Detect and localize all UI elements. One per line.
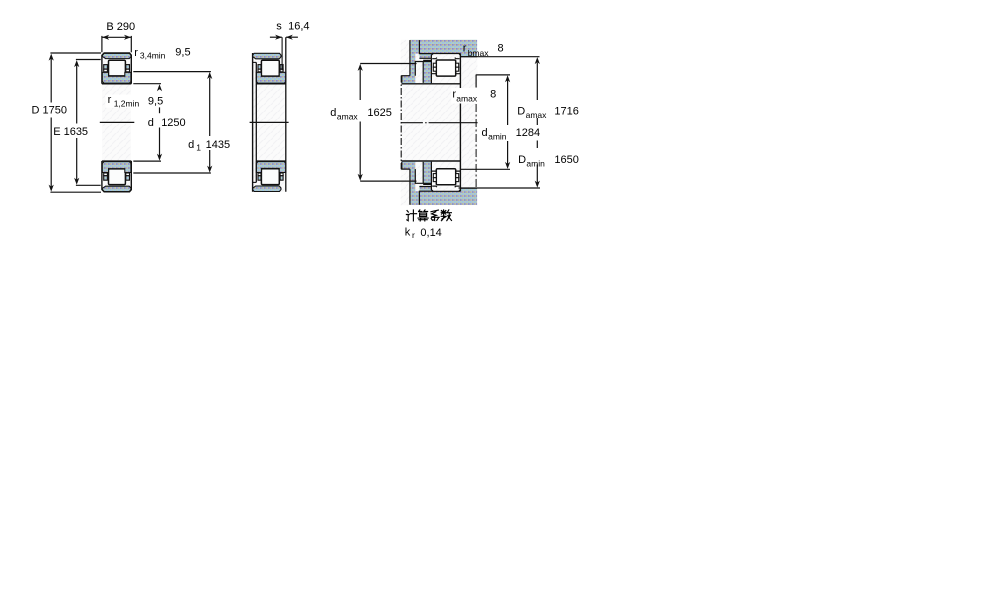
svg-text:3,4min: 3,4min — [140, 51, 166, 61]
cage boxes left (bottom) — [433, 178, 436, 182]
E dimension line lower — [76, 138, 78, 183]
d extension line top — [133, 83, 161, 85]
flange OD edge top — [253, 61, 257, 63]
outer ring outline (top) — [431, 54, 460, 59]
roller (top) — [436, 60, 455, 76]
da min extension bottom — [461, 168, 510, 170]
svg-text:9,5: 9,5 — [175, 47, 190, 59]
cage pocket left (left bottom) — [104, 173, 108, 176]
left view centerline — [100, 121, 135, 123]
housing block (bottom) — [419, 191, 477, 205]
right bearing bottom section (mirror) — [402, 161, 461, 191]
svg-text:amax: amax — [526, 110, 548, 120]
svg-text:9,5: 9,5 — [148, 96, 163, 108]
D arrow bottom — [49, 185, 54, 192]
svg-text:8: 8 — [490, 89, 496, 101]
Da arrow bottom — [535, 181, 540, 188]
roller (mid top) — [261, 60, 279, 76]
svg-text:r: r — [412, 230, 415, 240]
D dimension line upper — [50, 56, 52, 103]
svg-text:E 1635: E 1635 — [53, 126, 88, 138]
shaft shoulder outline (top) — [402, 60, 432, 83]
svg-text:amin: amin — [488, 132, 507, 142]
flange OD edge bottom — [253, 181, 257, 183]
da max dim line upper — [359, 67, 361, 101]
cage pocket right (left bottom) — [126, 173, 130, 176]
s dimension line right — [286, 36, 298, 38]
D arrow top — [49, 54, 54, 61]
svg-text:D 1750: D 1750 — [32, 105, 67, 117]
left view: bearing cross-section — [32, 21, 231, 192]
roller (left top) — [109, 60, 126, 76]
svg-text:d: d — [148, 117, 154, 129]
shaft shoulder (bottom) — [402, 162, 416, 170]
label ra max backing — [451, 88, 483, 104]
B arrow left — [102, 35, 109, 40]
d1 arrow bottom — [207, 166, 212, 173]
da min arrow bottom — [505, 162, 510, 169]
svg-text:1284: 1284 — [516, 127, 540, 139]
inner ring with flanges (left top) — [102, 72, 131, 83]
roller (mid bottom) — [261, 169, 279, 185]
outer ring right face extension — [281, 37, 283, 70]
middle view bottom section (mirror) — [253, 161, 286, 191]
da max arrow bottom — [358, 174, 363, 181]
cage bar right (mid bottom) — [280, 176, 283, 181]
svg-text:d: d — [330, 107, 336, 119]
outer ring section (mid top) — [253, 53, 282, 59]
E extension line top — [76, 59, 101, 61]
svg-text:1: 1 — [196, 143, 201, 153]
bearing right face line — [459, 54, 461, 192]
d arrow top — [157, 84, 162, 91]
inner ring with flanges (left bottom) — [102, 162, 131, 173]
cage pocket right (left top) — [126, 69, 130, 72]
d1 extension line top — [133, 71, 211, 73]
s dimension line left — [270, 36, 282, 38]
spacer column (top) — [423, 60, 431, 83]
d1 dimension line lower — [209, 150, 211, 168]
Da dim line seg2 — [536, 118, 538, 125]
d extension line bottom — [133, 160, 161, 162]
shaft/housing texture band — [401, 40, 478, 206]
svg-text:amax: amax — [456, 93, 478, 103]
clamp ring upper (top) — [410, 40, 420, 54]
cage pocket left (left top) — [104, 69, 108, 72]
D extension line top — [50, 52, 101, 54]
svg-text:D: D — [518, 154, 526, 166]
ring face outlines (left top) — [102, 53, 131, 84]
svg-text:16,4: 16,4 — [288, 21, 309, 33]
inner ring flange lines (top) — [431, 58, 460, 83]
inner ring with flanges (mid top) — [256, 72, 286, 83]
inner ring bore line (mid bottom) — [256, 160, 286, 162]
svg-text:k: k — [405, 226, 411, 238]
inner ring left face line — [255, 62, 257, 182]
B arrow right — [124, 35, 131, 40]
housing block (top) — [419, 40, 477, 54]
da max extension top — [360, 63, 416, 65]
housing shoulder step (top) — [460, 53, 477, 56]
inner ring bore line (left top) — [102, 83, 131, 85]
D dimension line lower — [50, 118, 52, 190]
da min dim line upper — [507, 80, 509, 126]
bore interior texture — [102, 54, 131, 192]
Da max extension top — [460, 56, 539, 58]
svg-text:d: d — [482, 127, 488, 139]
inner ring with flanges (mid bottom) — [256, 162, 286, 173]
E extension line bottom — [76, 184, 101, 186]
outer ring section (left bottom) — [102, 186, 130, 191]
bottom grey (mirror) — [402, 162, 477, 205]
da max extension bottom — [360, 180, 416, 182]
shaft shoulder (top) — [402, 76, 416, 84]
outer ring section (left top) — [102, 53, 130, 58]
svg-text:1650: 1650 — [554, 154, 578, 166]
Da dim line seg3 — [536, 141, 538, 149]
cage boxes left (top) — [433, 63, 436, 67]
clamp ring lower (bottom) — [410, 169, 415, 191]
Da arrow top — [535, 57, 540, 64]
d arrow bottom — [157, 154, 162, 161]
right view: abutment and fillet dimensions — [330, 40, 579, 206]
face reference line lower — [475, 104, 477, 189]
svg-text:s: s — [276, 21, 282, 33]
Da dim line seg1 — [536, 63, 538, 101]
spacer band (top) — [419, 54, 431, 59]
inner ring flange lines (bottom) — [431, 162, 460, 187]
E arrow top — [74, 60, 79, 67]
D extension line bottom — [50, 191, 101, 193]
cage bar left (mid top) — [258, 65, 261, 70]
svg-text:1250: 1250 — [161, 117, 185, 129]
E dimension line upper — [76, 62, 78, 124]
svg-text:1,2min: 1,2min — [114, 99, 140, 109]
svg-text:1716: 1716 — [554, 106, 578, 118]
cage bar right (mid top) — [280, 65, 283, 70]
housing outline (top) — [410, 40, 477, 76]
right view centerline seg2 — [429, 122, 478, 124]
Da dim line seg4 — [536, 165, 538, 184]
svg-text:D: D — [517, 106, 525, 118]
d1 extension line bottom — [133, 172, 211, 174]
inner ring bore line (mid top) — [256, 83, 286, 85]
da min dim line lower — [507, 141, 509, 165]
roller (bottom) — [436, 169, 455, 185]
d1 dimension line upper — [209, 78, 211, 137]
cage bar right (left top) — [126, 65, 130, 70]
cage pocket right (mid bottom) — [280, 173, 283, 176]
middle bore texture — [253, 54, 286, 192]
da max dim line lower — [359, 122, 361, 179]
da min arrow top — [505, 75, 510, 82]
svg-text:1435: 1435 — [206, 139, 230, 151]
cage bar left (left top) — [104, 65, 108, 70]
svg-text:amax: amax — [337, 112, 359, 122]
d dimension line lower — [159, 128, 161, 159]
face reference line upper — [475, 75, 477, 88]
da max arrow top — [358, 64, 363, 71]
outer ring section (mid bottom) — [253, 186, 282, 192]
s arrow left — [275, 35, 282, 40]
cage bar left (mid bottom) — [258, 176, 261, 181]
outer ring left face line — [252, 53, 254, 192]
bore line (bottom) — [402, 160, 461, 162]
cage pocket left (mid top) — [258, 69, 261, 72]
svg-text:B 290: B 290 — [106, 21, 135, 33]
cage boxes right (bottom) — [456, 178, 459, 182]
ring face outlines (left bottom) — [102, 161, 131, 192]
shaft shoulder outline (bottom) — [402, 162, 432, 185]
middle view: axial displacement section — [250, 21, 310, 192]
cage bar left (left bottom) — [104, 176, 108, 181]
left view bottom section (mirror) — [102, 161, 131, 192]
svg-text:0,14: 0,14 — [420, 227, 441, 239]
right view centerline seg1 — [401, 122, 423, 124]
cage boxes right (top) — [456, 63, 459, 67]
middle view centerline — [250, 121, 289, 123]
spacer column (bottom) — [423, 162, 431, 185]
svg-text:amin: amin — [526, 158, 545, 168]
inner ring bore line (left bottom) — [102, 160, 131, 162]
Da min extension bottom — [459, 187, 541, 189]
roller (left bottom) — [109, 169, 126, 185]
svg-text:r: r — [108, 94, 112, 106]
B extension line left — [101, 36, 103, 52]
calculation factor heading (CJK) — [406, 210, 451, 221]
da min extension top — [476, 74, 510, 76]
label r1,2min backing — [106, 95, 142, 108]
cage bar right (left bottom) — [126, 176, 130, 181]
cage pocket right (mid top) — [280, 69, 283, 72]
svg-text:1625: 1625 — [367, 107, 391, 119]
clamp ring lower (top) — [410, 53, 415, 75]
housing outline (bottom) — [410, 169, 477, 205]
bore line (top) — [402, 83, 461, 85]
svg-text:r: r — [134, 47, 138, 59]
shaft break line (dash-dot) — [400, 76, 402, 170]
svg-text:d: d — [188, 139, 194, 151]
clamp ring upper (bottom) — [410, 191, 420, 205]
svg-text:8: 8 — [498, 43, 504, 55]
d dimension line segment — [159, 107, 161, 113]
s arrow right — [286, 35, 293, 40]
B extension line right — [130, 36, 132, 52]
housing shoulder step (bottom) — [460, 188, 477, 191]
d1 arrow top — [207, 72, 212, 79]
E arrow bottom — [74, 178, 79, 185]
B dimension line — [102, 36, 131, 38]
spacer band (bottom) — [419, 187, 431, 192]
inner ring right face line / s extension — [285, 37, 287, 192]
outer ring outline (bottom) — [431, 186, 460, 191]
right view centerline dot — [425, 122, 426, 124]
cage pocket left (mid bottom) — [258, 173, 261, 176]
svg-text:r: r — [463, 43, 467, 55]
